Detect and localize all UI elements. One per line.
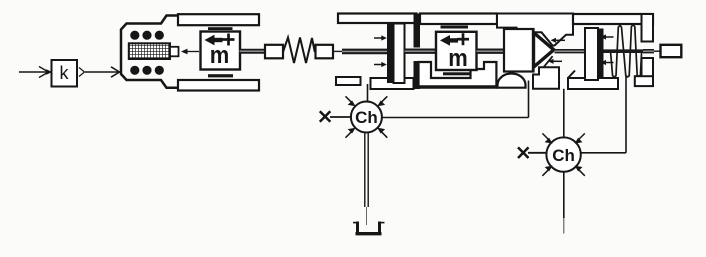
svg-text:Ch: Ch <box>355 108 378 127</box>
valve top wall band 2 <box>420 14 497 25</box>
friction pad above mass m1 <box>208 27 233 30</box>
svg-text:m: m <box>448 45 468 72</box>
bottom wall segment A <box>336 77 361 85</box>
spring end block left <box>265 45 283 59</box>
seat lower step block <box>533 56 559 89</box>
end block <box>661 45 682 57</box>
poppet cone <box>534 33 554 68</box>
valve top wall band 1 <box>338 14 417 24</box>
wire Ch2 south <box>563 171 565 234</box>
svg-text:m: m <box>210 42 230 69</box>
svg-text:k: k <box>60 63 70 83</box>
rod m1 to spring <box>240 49 266 54</box>
wire signal input line <box>19 67 53 78</box>
bottom wall segment right of port (chamfered) <box>568 71 618 90</box>
gain block k <box>52 60 78 87</box>
tank symbol <box>353 222 385 234</box>
rod m2 to poppet <box>477 49 505 54</box>
bottom bar with dome shoulder <box>498 74 526 88</box>
right wall upper <box>642 14 654 42</box>
main piston <box>585 28 604 80</box>
Ch1 flow arrows <box>346 96 388 137</box>
flow arrows at seat <box>548 38 565 64</box>
pressure arrows on main piston <box>601 34 614 65</box>
wire port to Ch2 (north) <box>563 89 565 139</box>
U channel under mass m2 <box>419 62 497 88</box>
solenoid coil dots <box>130 31 164 75</box>
bottom guide rail (solenoid section) <box>178 80 259 91</box>
svg-text:Ch: Ch <box>552 146 575 165</box>
node x input Ch2 <box>518 147 547 158</box>
solenoid armature (hatched) <box>129 43 170 59</box>
mass m1 box <box>201 32 241 70</box>
partition wall lower <box>414 61 421 89</box>
valve top wall band 3 <box>573 14 653 24</box>
chamber Ch2 <box>546 137 580 171</box>
chamber Ch1 <box>351 102 382 133</box>
spring S1 <box>283 38 315 64</box>
spring end block right <box>316 45 334 59</box>
friction pad below mass m2 <box>443 72 470 75</box>
bottom wall right end <box>635 76 653 86</box>
seat upper wall polygon <box>497 14 573 46</box>
pole piece <box>170 47 179 57</box>
Ch2 flow arrows <box>542 133 584 175</box>
bottom wall segment B <box>371 78 414 89</box>
partition wall upper <box>414 14 421 48</box>
force arrow on armature <box>181 49 199 55</box>
pressure arrows on pilot piston <box>374 35 387 67</box>
spring S2 (return spring) <box>611 25 642 77</box>
top guide rail (solenoid section) <box>178 14 259 25</box>
wire Ch1 to tank (double line) <box>365 133 368 226</box>
wire Ch1 east to poppet chamber <box>382 81 529 118</box>
friction pad below mass m1 <box>208 74 233 77</box>
pilot piston (black face) <box>387 24 405 84</box>
wire k output to solenoid <box>79 67 120 77</box>
wire port to Ch1 (north) <box>367 84 369 102</box>
node x input Ch1 <box>320 111 351 122</box>
right wall lower <box>642 58 654 86</box>
friction pad above mass m2 <box>441 26 469 29</box>
rod through right wall <box>604 49 661 53</box>
solenoid housing outline <box>121 16 178 88</box>
rod spring to pilot piston <box>332 50 389 52</box>
rod pilot piston to m2 <box>405 49 437 54</box>
poppet block <box>504 29 534 72</box>
wire Ch2 east to spring chamber <box>580 76 626 153</box>
mass m2 box <box>436 32 477 72</box>
rod poppet to main piston <box>555 49 586 53</box>
